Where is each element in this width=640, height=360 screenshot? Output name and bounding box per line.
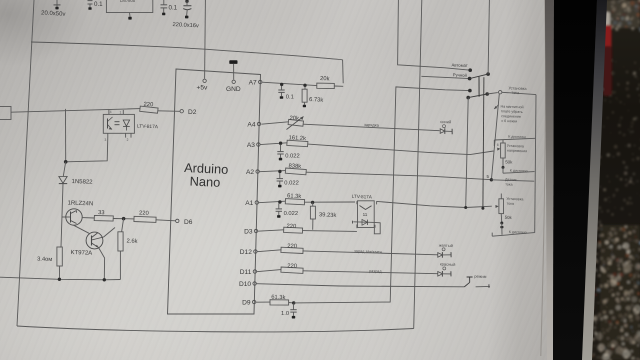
wire A4 to blue LED <box>303 124 439 131</box>
switch SW1 link bar <box>478 77 480 97</box>
svg-text:тока: тока <box>511 91 520 95</box>
svg-text:1RLZ24N: 1RLZ24N <box>67 201 93 208</box>
svg-text:20.0x50v: 20.0x50v <box>41 11 66 18</box>
svg-text:0.1: 0.1 <box>169 4 178 11</box>
svg-text:A1: A1 <box>245 200 253 207</box>
pin D12 <box>254 250 257 253</box>
capacitor 0.022 on A1 <box>278 203 280 209</box>
svg-text:синий: синий <box>440 119 451 124</box>
svg-text:Ручной: Ручной <box>453 72 468 78</box>
resistor 61.3k (A1) <box>285 199 304 205</box>
svg-text:6: 6 <box>497 143 499 147</box>
svg-text:напряжения: напряжения <box>507 149 527 154</box>
resistor 3.4ом <box>60 246 61 248</box>
svg-text:A3: A3 <box>247 142 255 149</box>
svg-text:11: 11 <box>363 212 368 217</box>
junction A1/cap <box>278 200 281 203</box>
wire +5v rail <box>31 42 343 60</box>
svg-text:Автомат: Автомат <box>451 62 467 68</box>
pin D2 <box>180 110 183 113</box>
wire A2 row <box>259 171 285 172</box>
svg-text:Nano: Nano <box>189 174 220 190</box>
wire D9 to manual switch contact <box>294 87 470 303</box>
wire 220 to D2 <box>158 110 180 113</box>
wire Установка тока to display box <box>502 92 536 94</box>
svg-text:Датчик: Датчик <box>505 178 517 182</box>
wire Ручной vertical net (top to bottom rail) <box>414 0 422 329</box>
svg-text:GND: GND <box>226 86 241 93</box>
svg-text:220: 220 <box>143 102 153 108</box>
svg-text:838k: 838k <box>288 163 301 170</box>
wire A2 to current sensor node 5 <box>306 172 491 180</box>
svg-text:1N5822: 1N5822 <box>71 179 93 186</box>
svg-text:зарядка: зарядка <box>364 122 380 128</box>
wire D11 to red LED <box>303 271 438 274</box>
svg-text:К дисплею: К дисплею <box>508 135 526 140</box>
wire U2 emitter down-left <box>66 137 108 162</box>
wire common up <box>488 0 489 74</box>
resistor 61.3k (D9) <box>270 300 289 305</box>
junction U3 net 2 <box>481 207 484 210</box>
resistor 33 <box>94 215 113 221</box>
pin GND <box>232 80 235 83</box>
transistor Q2 KT972A <box>86 232 103 249</box>
wire D10 row to mode switch <box>256 284 464 287</box>
svg-text:красный: красный <box>440 261 456 267</box>
svg-text:желтый: желтый <box>439 243 453 248</box>
wire input to opto U2 and D2 <box>11 109 140 113</box>
wire Q2 emitter down <box>99 248 105 280</box>
pin +5v <box>203 79 206 82</box>
svg-text:KT972A: KT972A <box>70 250 92 257</box>
resistor 220 (D11) <box>281 267 303 273</box>
voltage regulator U? (7805, cut off) <box>106 0 152 13</box>
wire D3 to U3 LED <box>303 230 357 233</box>
svg-text:D12: D12 <box>240 249 252 256</box>
junction D9/cap <box>292 301 295 304</box>
wire D12 to yellow LED <box>303 251 438 255</box>
wire base of Q2 <box>104 228 115 238</box>
wire A3 to voltage-set pot <box>308 144 494 155</box>
svg-text:D3: D3 <box>244 229 253 236</box>
wire D3 row <box>258 230 284 231</box>
svg-text:1: 1 <box>120 110 122 114</box>
U2 internals: phototransistor = LED <box>107 119 109 129</box>
terminal tick red LED <box>450 271 452 276</box>
resistor 161.2k <box>287 140 308 147</box>
op-amp?? no: Arduino Nano U1 module box <box>168 69 261 314</box>
ground symbol above GND pin <box>229 60 237 64</box>
pin D6 <box>176 219 179 222</box>
optocoupler U3 LTV-817A <box>358 201 375 228</box>
svg-text:D2: D2 <box>188 109 197 116</box>
wire Q1 source to Q2 collector <box>74 225 91 234</box>
ground of regulator <box>129 13 132 17</box>
svg-text:0.022: 0.022 <box>284 180 299 186</box>
wire A7 row <box>262 82 317 85</box>
pin A7 <box>259 80 262 83</box>
svg-text:D10: D10 <box>239 281 251 288</box>
node circle <box>499 91 502 94</box>
svg-text:заряд закончен: заряд закончен <box>354 248 382 254</box>
svg-text:К дисплею: К дисплею <box>509 230 527 235</box>
capacitor 0.1 (output) <box>163 0 165 5</box>
wire 4th contact down to U3 net <box>466 98 469 208</box>
resistor 6.73k <box>304 87 306 89</box>
junction U3 net <box>464 206 467 209</box>
terminal tick blue LED <box>451 129 453 135</box>
pin A2 <box>256 170 259 173</box>
optocoupler U2 LTV-817A <box>103 114 134 133</box>
svg-text:LTV-817A: LTV-817A <box>137 124 159 131</box>
junction A2/cap <box>278 170 281 173</box>
resistor 2.6k <box>118 232 123 251</box>
svg-text:0.1: 0.1 <box>286 95 294 101</box>
junction left line <box>64 160 68 164</box>
capacitor 0.1 on A7 <box>281 86 283 90</box>
resistor 39.23k <box>312 202 314 206</box>
capacitor 20.0x50v <box>56 0 58 5</box>
capacitor 0.022 on A2 <box>279 173 281 179</box>
svg-text:режим: режим <box>474 274 486 279</box>
pin A3 <box>257 143 260 146</box>
resistor 220 (D6) <box>134 216 156 222</box>
svg-text:2: 2 <box>127 138 129 142</box>
LED inside U3 <box>353 221 374 224</box>
svg-text:0.022: 0.022 <box>284 211 299 217</box>
terminal tick yellow LED <box>450 252 452 257</box>
svg-text:6.73k: 6.73k <box>309 97 324 104</box>
svg-text:61.3k: 61.3k <box>287 193 302 200</box>
svg-text:0.1: 0.1 <box>94 1 103 8</box>
schematic outer border bottom (ground rail) <box>17 326 414 332</box>
connector half visible at left edge <box>0 107 11 120</box>
potentiometer Установка тока 50k <box>500 194 502 199</box>
svg-text:5: 5 <box>487 174 490 179</box>
capacitor 220.0x16v <box>185 0 188 3</box>
background texture speckles <box>620 228 622 230</box>
svg-text:4: 4 <box>110 110 112 114</box>
svg-text:61.3k: 61.3k <box>271 295 285 301</box>
pin D10 <box>253 282 256 285</box>
svg-text:220: 220 <box>287 244 297 250</box>
wire D9 row <box>256 301 270 303</box>
svg-text:2.6k: 2.6k <box>126 239 137 245</box>
svg-text:К дисплею: К дисплею <box>510 169 528 174</box>
screen page edge line <box>541 0 546 356</box>
wire D11 row <box>257 270 281 272</box>
pin D9 <box>252 300 255 303</box>
svg-text:разряд: разряд <box>369 268 382 273</box>
svg-text:50k: 50k <box>505 215 513 220</box>
capacitor 0.022 on A3 <box>280 145 282 152</box>
svg-text:161.2k: 161.2k <box>288 135 306 142</box>
capacitor 1.0 on D9 <box>293 304 295 310</box>
svg-text:D6: D6 <box>184 219 193 226</box>
wire A4 row <box>261 122 288 124</box>
svg-text:3.4ом: 3.4ом <box>37 257 52 264</box>
svg-text:A7: A7 <box>249 80 257 87</box>
svg-text:0.022: 0.022 <box>285 153 300 159</box>
pin D3 <box>254 229 257 232</box>
svg-text:D11: D11 <box>240 269 252 276</box>
wire net to auto contact (from top) <box>398 0 471 70</box>
switch SW1 contacts <box>468 68 472 72</box>
wire common to current-set <box>487 93 498 94</box>
pin D11 <box>253 270 256 273</box>
svg-text:20k: 20k <box>289 116 299 122</box>
capacitor 0.1 (input) <box>88 0 93 2</box>
svg-text:39.23k: 39.23k <box>319 212 337 219</box>
wire D12 row <box>257 250 281 252</box>
svg-text:тока: тока <box>505 182 512 186</box>
background behind monitor <box>580 0 640 360</box>
svg-text:33: 33 <box>98 210 105 216</box>
resistor 838k <box>285 168 306 175</box>
svg-text:LM7805: LM7805 <box>120 0 136 3</box>
resistor 220 (D12) <box>281 247 303 253</box>
wire К дисплею #2 <box>502 167 504 173</box>
svg-text:220: 220 <box>139 211 149 217</box>
wire display box right edge <box>535 95 536 233</box>
wire A1 row <box>259 201 286 203</box>
junction A3/cap <box>279 142 282 145</box>
wire A3 row <box>260 143 287 145</box>
schematic outer border left <box>17 0 34 326</box>
junction A1/39.23k <box>311 201 314 204</box>
wire Ручной branch <box>421 76 469 78</box>
svg-text:20k: 20k <box>320 76 330 82</box>
wire junction down to 2.6k <box>122 219 124 232</box>
svg-text:220.0x16v: 220.0x16v <box>172 22 199 29</box>
pin A1 <box>255 201 258 204</box>
resistor 220 (D3) <box>284 227 303 233</box>
svg-text:220: 220 <box>286 224 296 230</box>
terminal tick U3 left <box>351 221 353 224</box>
wire U3 cathode loop <box>374 222 380 233</box>
svg-text:+5v: +5v <box>197 85 209 92</box>
svg-text:LTV-817A: LTV-817A <box>352 194 373 200</box>
switch SW1 levers <box>470 74 489 79</box>
potentiometer Установка напряжения 50k <box>502 140 504 144</box>
potentiometer 20k on A4 <box>288 119 303 126</box>
wire gate to 33 <box>82 217 94 219</box>
junction A7/6.73k <box>303 84 306 87</box>
wire 220 to D6 <box>156 220 176 221</box>
red object behind monitor <box>601 12 611 26</box>
svg-text:D9: D9 <box>242 300 251 307</box>
annotation arrow <box>494 105 498 109</box>
svg-text:A2: A2 <box>246 169 254 176</box>
junction A7/0.1 <box>280 83 283 86</box>
left vertical power line <box>65 109 67 162</box>
wire bottom emitter rail <box>0 277 120 280</box>
wire rail corner down to 20k <box>342 60 345 83</box>
svg-text:3: 3 <box>105 138 107 142</box>
wire К дисплею #3 <box>501 223 503 235</box>
resistor 20k (A7 to +5v) <box>317 83 335 89</box>
svg-text:с 6 ножки: с 6 ножки <box>501 119 517 124</box>
pin A4 <box>257 122 260 125</box>
wire +5v drop to Arduino <box>204 0 207 79</box>
svg-text:220: 220 <box>287 263 297 269</box>
diode 1N5822 <box>59 177 67 184</box>
wire U3 collector to current-gain pot <box>377 201 492 207</box>
svg-text:A4: A4 <box>247 122 255 129</box>
junction gate/base <box>122 217 126 221</box>
svg-text:1.0: 1.0 <box>281 311 289 317</box>
wire diagonal to sensor node 5 <box>491 94 499 180</box>
svg-text:50k: 50k <box>505 159 513 164</box>
resistor 220 (D2) <box>140 106 158 113</box>
wire К дисплею #1 <box>494 138 535 140</box>
svg-text:тока: тока <box>507 202 514 206</box>
terminal tick mode switch <box>488 284 490 288</box>
